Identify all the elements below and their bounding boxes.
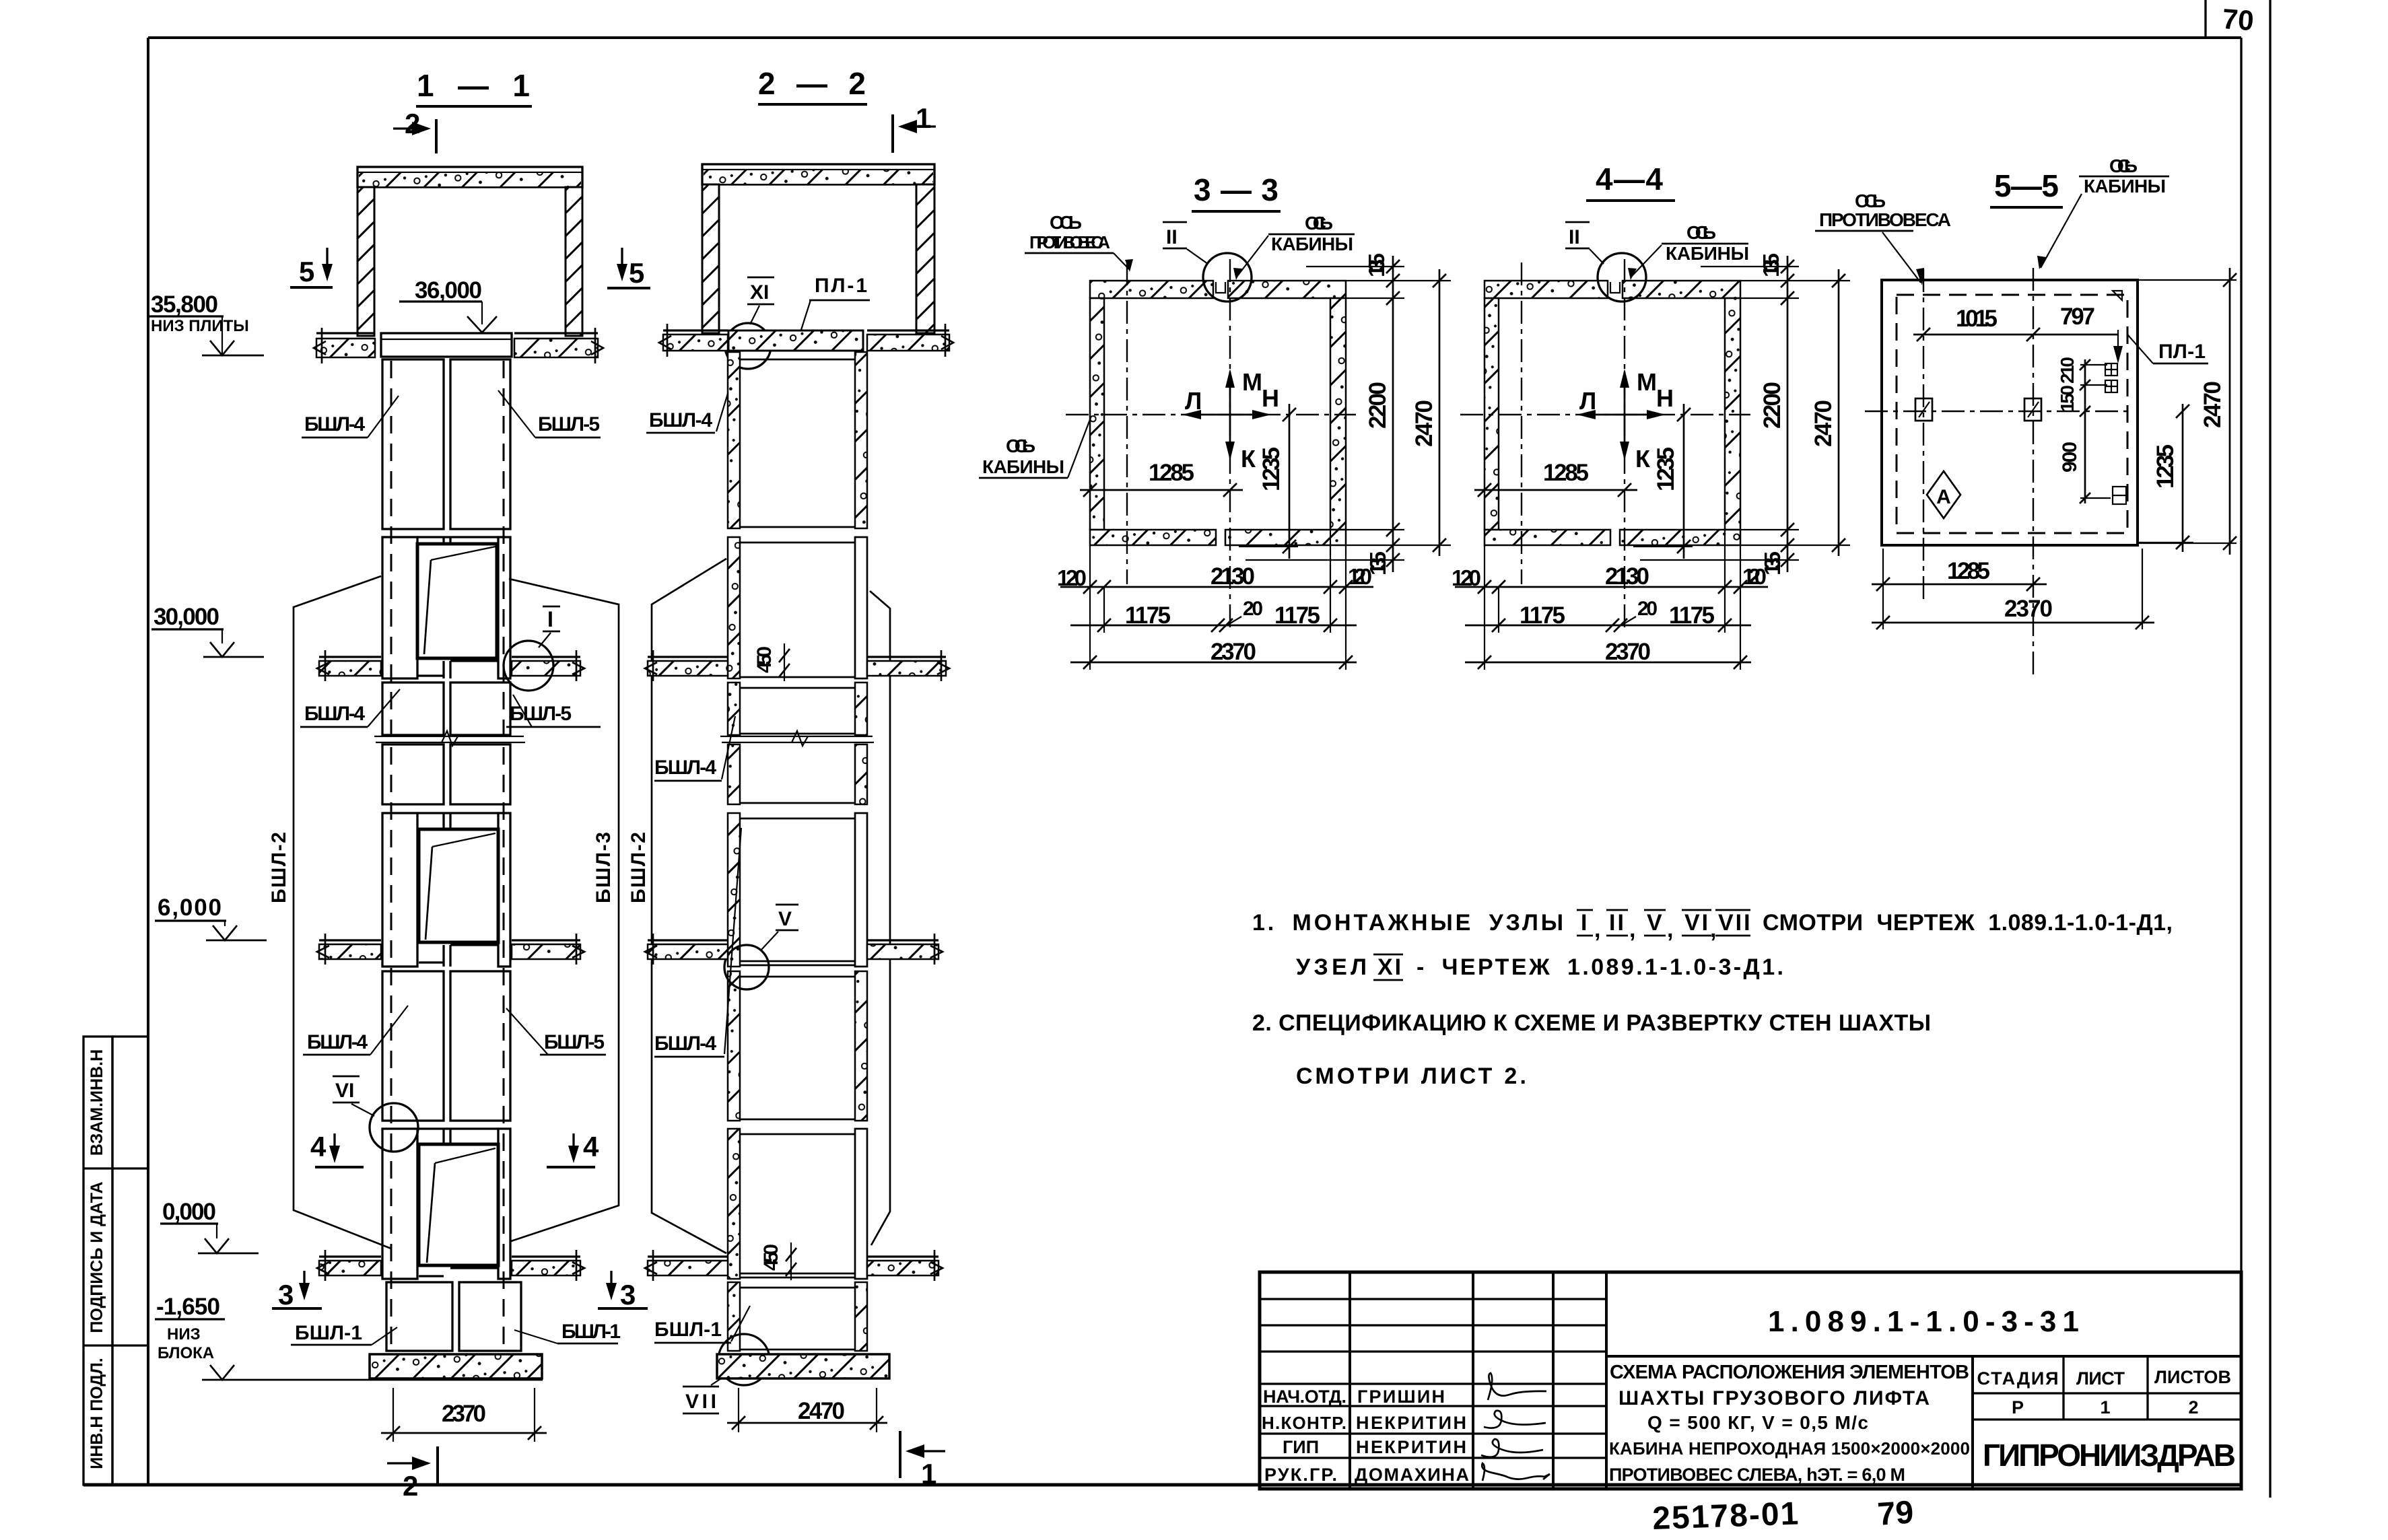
svg-text:ПЛ-1: ПЛ-1	[2158, 341, 2206, 363]
label BShL-1 left	[291, 1322, 397, 1345]
svg-text:I: I	[547, 607, 553, 631]
shaft 1-1 row F blocks	[382, 971, 510, 1121]
svg-text:2470: 2470	[2199, 381, 2226, 428]
axis horizontal 4-4	[1460, 414, 1750, 415]
svg-text:2470: 2470	[1411, 400, 1437, 447]
axis counterweight 4-4	[1521, 262, 1522, 584]
dim 2200 4-4	[1740, 291, 1799, 536]
floor ledge right at 0.000	[512, 1250, 584, 1281]
svg-text:2. СПЕЦИФИКАЦИЮ К СХЕМЕ И: 2. СПЕЦИФИКАЦИЮ К СХЕМЕ И РАЗВЕРТКУ СТЕН…	[1252, 1010, 1931, 1036]
svg-text:I: I	[1581, 910, 1589, 936]
buffer square middle 5-5	[2024, 398, 2041, 421]
svg-text:НИЗ ПЛИТЫ: НИЗ ПЛИТЫ	[151, 317, 249, 335]
section cut marker 2 top	[393, 108, 436, 153]
svg-text:БШЛ-1: БШЛ-1	[295, 1322, 362, 1344]
svg-text:20: 20	[1637, 598, 1658, 620]
svg-text:2370: 2370	[2004, 596, 2053, 622]
svg-text:1175: 1175	[1274, 602, 1320, 629]
notes roman overlines line 1	[1577, 910, 1750, 936]
svg-text:А: А	[1936, 486, 1951, 508]
svg-text:Н: Н	[1656, 384, 1674, 412]
svg-text:К: К	[1241, 445, 1256, 473]
svg-text:КАБИНЫ: КАБИНЫ	[2084, 176, 2166, 197]
svg-text:БШЛ-2: БШЛ-2	[268, 832, 290, 903]
shaft 1-1 door row 2	[382, 813, 510, 967]
signatures	[1481, 1373, 1550, 1481]
svg-text:ОСЬ: ОСЬ	[1855, 190, 1886, 211]
svg-text:V: V	[1647, 910, 1664, 936]
svg-text:2130: 2130	[1605, 563, 1649, 590]
svg-text:2130: 2130	[1210, 563, 1255, 590]
svg-text:6,000: 6,000	[158, 895, 221, 921]
dim 1235 3-3	[1239, 404, 1298, 559]
svg-text:М: М	[1242, 368, 1262, 396]
shaft 1-1 bottom row BShL-1 blocks	[386, 1282, 521, 1351]
svg-text:1. МОНТАЖНЫЕ УЗЛЫ: 1. МОНТАЖНЫЕ УЗЛЫ	[1252, 910, 1565, 936]
dim 450 top 2-2	[753, 643, 790, 681]
plan 5-5 title	[1990, 168, 2063, 207]
svg-text:СМОТРИ ЧЕРТЕЖ 1.089.1-1.0-1-: СМОТРИ ЧЕРТЕЖ 1.089.1-1.0-1-Д1,	[1763, 910, 2175, 936]
svg-text:ПРОТИВОВЕСА: ПРОТИВОВЕСА	[1029, 232, 1110, 252]
label axis cabin 5-5	[2041, 155, 2169, 268]
svg-text:ПОДПИСЬ И ДАТА: ПОДПИСЬ И ДАТА	[88, 1181, 106, 1333]
svg-text:2200: 2200	[1365, 382, 1391, 429]
svg-text:1235: 1235	[2152, 444, 2179, 489]
label BShL-1 2-2	[654, 1306, 750, 1343]
svg-text:797: 797	[2060, 304, 2095, 330]
svg-text:2470: 2470	[798, 1398, 845, 1424]
svg-text:КАБИНА НЕПРОХОДНАЯ 1500×2000×2: КАБИНА НЕПРОХОДНАЯ 1500×2000×2000	[1609, 1438, 1970, 1459]
svg-text:,: ,	[1710, 917, 1718, 942]
svg-text:ЛИСТ: ЛИСТ	[2076, 1368, 2125, 1389]
level 0.000 mark	[160, 1199, 259, 1253]
svg-text:25178-01: 25178-01	[1652, 1496, 1801, 1537]
svg-text:1 — 1: 1 — 1	[417, 68, 530, 103]
svg-text:5 — 5: 5 — 5	[1994, 168, 2059, 203]
svg-text:БШЛ-2: БШЛ-2	[627, 832, 650, 903]
label BShL-1 right	[514, 1321, 621, 1343]
svg-text:5: 5	[299, 256, 314, 287]
svg-text:БШЛ-4: БШЛ-4	[654, 757, 716, 779]
corner anchor top right 5-5	[2113, 291, 2122, 300]
svg-text:Л: Л	[1185, 387, 1202, 415]
notes line 1	[1252, 910, 2175, 942]
direction arrows 3-3	[1182, 368, 1279, 473]
svg-text:1235: 1235	[1258, 447, 1285, 491]
svg-text:ПЛ-1: ПЛ-1	[815, 275, 867, 297]
label BShL-4 mid2	[303, 1006, 408, 1055]
axis cabin 4-4	[1624, 259, 1625, 633]
label PL-1 5-5	[2127, 335, 2208, 363]
dim 1285 3-3	[1080, 460, 1243, 497]
dim 2470 under 2-2	[727, 1388, 887, 1432]
level 30.000 mark	[151, 604, 264, 657]
dim 135 top right 3-3	[1306, 253, 1404, 298]
svg-text:РУК.ГР.: РУК.ГР.	[1264, 1465, 1337, 1485]
section marker 4 right	[547, 1131, 599, 1167]
plan 5-5 outer rect	[1882, 280, 2138, 545]
floor 36.000 ledge right 2-2	[867, 324, 953, 357]
machine room 1-1 top slab	[357, 167, 582, 187]
svg-text:ШАХТЫ ГРУЗОВОГО ЛИФТА: ШАХТЫ ГРУЗОВОГО ЛИФТА	[1618, 1387, 1930, 1409]
machine room 2-2 top slab	[702, 164, 934, 184]
svg-text:ОСЬ: ОСЬ	[1305, 213, 1333, 234]
plan 3-3 walls	[1090, 281, 1346, 545]
label axis cabin top 4-4	[1632, 222, 1749, 276]
dim 2470 5-5	[2138, 268, 2237, 555]
plan 4-4 walls	[1485, 281, 1740, 545]
svg-text:К: К	[1635, 445, 1651, 473]
svg-text:2: 2	[403, 1470, 418, 1502]
svg-text:СХЕМА РАСПОЛОЖЕНИЯ ЭЛЕМЕНТОВ: СХЕМА РАСПОЛОЖЕНИЯ ЭЛЕМЕНТОВ	[1610, 1362, 1969, 1383]
dim 2470 4-4	[1740, 269, 1850, 556]
svg-text:ИНВ.Н ПОДЛ.: ИНВ.Н ПОДЛ.	[88, 1358, 106, 1469]
machine room 1-1 left wall	[357, 187, 374, 336]
svg-text:1: 1	[916, 102, 931, 134]
dim 2370 4-4	[1465, 639, 1751, 669]
section marker 5 right	[607, 248, 650, 289]
dim 1285 4-4	[1474, 460, 1637, 497]
bracket BShL-2 left of 1-1	[268, 576, 391, 1249]
svg-text:БШЛ-4: БШЛ-4	[649, 409, 712, 431]
svg-text:2370: 2370	[442, 1401, 486, 1427]
floor ledge left at 6.000	[317, 934, 381, 965]
section marker 3 right	[598, 1271, 648, 1310]
section cut marker 1 top	[893, 102, 936, 153]
axis horizontal 3-3	[1066, 414, 1356, 415]
svg-text:2470: 2470	[1810, 400, 1837, 447]
left stamp boxes	[83, 1037, 148, 1485]
svg-text:450: 450	[760, 1244, 782, 1271]
svg-text:БШЛ-3: БШЛ-3	[592, 832, 615, 903]
svg-text:НЕКРИТИН: НЕКРИТИН	[1356, 1413, 1466, 1433]
svg-text:1: 1	[921, 1458, 936, 1490]
buffer square left 5-5	[1915, 398, 1932, 421]
svg-text:450: 450	[753, 646, 776, 673]
label BShL-4 top 2-2	[646, 382, 731, 433]
floor 36.000 right ledge	[514, 328, 603, 363]
label axis cabin left 3-3	[979, 416, 1091, 478]
section marker 5 left	[290, 248, 333, 287]
dim 135 bottom right 4-4	[1640, 530, 1799, 575]
section cut marker 2 bottom	[387, 1446, 438, 1502]
svg-text:2370: 2370	[1210, 639, 1256, 665]
shaft 1-1 dashed joint lines	[391, 361, 504, 1349]
node VI circle and label	[333, 1076, 418, 1152]
label BShL-4 low 2-2	[654, 828, 741, 1057]
floor ledge left at 0.000	[317, 1250, 381, 1281]
bracket right of 2-2	[870, 591, 890, 1245]
svg-text:4: 4	[310, 1131, 327, 1162]
svg-text:- ЧЕРТЕЖ 1.089.1-1.0-3-Д1.: - ЧЕРТЕЖ 1.089.1-1.0-3-Д1.	[1417, 954, 1785, 980]
title block row labels	[1262, 1387, 1469, 1485]
svg-text:VI: VI	[335, 1080, 354, 1102]
node II circle 4-4	[1598, 253, 1646, 302]
dim 2370 under 1-1	[381, 1388, 547, 1442]
node I circle	[504, 606, 560, 691]
svg-text:Р: Р	[2012, 1397, 2024, 1417]
dim 2370 5-5	[1872, 549, 2154, 629]
svg-text:1285: 1285	[1543, 460, 1589, 486]
node XI circle	[725, 323, 771, 369]
svg-text:36,000: 36,000	[415, 277, 482, 304]
svg-text:БЛОКА: БЛОКА	[158, 1344, 214, 1362]
dim 135 top right 4-4	[1701, 253, 1799, 298]
label BShL-5 mid1	[506, 695, 601, 727]
section marker 4 left	[310, 1131, 364, 1167]
svg-text:1015: 1015	[1956, 306, 1998, 332]
machine room 2-2 left wall	[702, 184, 719, 333]
label BShL-4 mid1	[300, 689, 400, 727]
anchors right 5-5	[2105, 363, 2126, 504]
svg-text:2 — 2: 2 — 2	[758, 66, 866, 101]
label BShL-5 top 1-1	[498, 390, 601, 438]
svg-text:135: 135	[1364, 253, 1389, 277]
svg-text:СТАДИЯ: СТАДИЯ	[1977, 1368, 2059, 1389]
label axis counterweight 5-5	[1815, 190, 1951, 285]
svg-text:КАБИНЫ: КАБИНЫ	[982, 456, 1064, 477]
svg-text:V: V	[778, 908, 792, 930]
level 35.800 mark	[149, 291, 264, 355]
svg-text:150: 150	[2057, 385, 2078, 412]
svg-text:120: 120	[1057, 565, 1087, 590]
svg-text:XI: XI	[750, 281, 769, 304]
dim 450 bottom 2-2	[760, 1242, 796, 1280]
machine room 2-2 right wall	[916, 184, 934, 333]
svg-text:БШЛ-5: БШЛ-5	[538, 413, 600, 435]
dim 1235 4-4	[1633, 404, 1693, 559]
dim 1015 797 5-5	[1913, 304, 2123, 363]
svg-text:XI: XI	[1377, 954, 1403, 980]
floor plate PL-1 in 1-1	[381, 333, 512, 357]
svg-text:ОСЬ: ОСЬ	[1006, 435, 1035, 456]
svg-text:,: ,	[1629, 917, 1637, 942]
svg-text:ГИПРОНИИЗДРАВ: ГИПРОНИИЗДРАВ	[1983, 1438, 2236, 1473]
section 2-2 title	[758, 66, 867, 104]
svg-text:,: ,	[1594, 917, 1602, 942]
node VII circle and label	[683, 1334, 770, 1413]
svg-text:-1,650: -1,650	[156, 1294, 220, 1320]
bottom dim chain 120 2130 120 3-3	[1057, 530, 1373, 670]
floor ledge right at 30.000 + node I	[512, 650, 584, 681]
svg-text:20: 20	[1243, 598, 1263, 620]
svg-text:120: 120	[1348, 564, 1372, 589]
svg-text:БШЛ-1: БШЛ-1	[654, 1319, 722, 1341]
floor ledge left at 30.000	[317, 650, 381, 681]
notes roman lines line 2	[1373, 954, 1403, 980]
svg-text:3 — 3: 3 — 3	[1194, 172, 1278, 207]
svg-text:ОСЬ: ОСЬ	[1050, 212, 1082, 233]
floor 36.000 left ledge	[314, 328, 375, 363]
svg-text:0,000: 0,000	[162, 1199, 216, 1225]
dim 2370 3-3	[1070, 639, 1357, 669]
svg-text:II: II	[1569, 226, 1580, 248]
svg-text:,: ,	[1667, 917, 1675, 942]
svg-text:2370: 2370	[1605, 639, 1651, 665]
svg-text:БШЛ-4: БШЛ-4	[304, 703, 365, 725]
svg-text:1175: 1175	[1669, 602, 1715, 629]
bottom dim chain 120 2130 120 4-4	[1452, 530, 1768, 670]
label PL-1 in 2-2	[801, 275, 870, 330]
svg-text:3: 3	[278, 1279, 294, 1310]
svg-text:135: 135	[1759, 253, 1783, 277]
svg-text:ДОМАХИНА: ДОМАХИНА	[1355, 1465, 1469, 1485]
svg-text:210: 210	[2057, 357, 2078, 384]
break line 1-1	[374, 731, 525, 746]
machine room 1-1 right wall	[566, 187, 582, 336]
svg-text:35,800: 35,800	[151, 291, 218, 318]
svg-text:5: 5	[629, 257, 644, 289]
svg-text:КАБИНЫ: КАБИНЫ	[1666, 243, 1749, 264]
level 6.000 mark	[155, 895, 267, 940]
dim 135 bottom right 3-3	[1246, 530, 1404, 575]
dim 1285 5-5	[1872, 549, 2047, 629]
axis cabin 5-5 line	[2033, 268, 2034, 680]
bracket BShL-2 left of 2-2	[627, 559, 726, 1253]
plan 4-4 title	[1586, 162, 1675, 201]
svg-text:900: 900	[2059, 442, 2081, 473]
svg-text:1175: 1175	[1520, 602, 1565, 629]
svg-text:БШЛ-1: БШЛ-1	[561, 1321, 621, 1343]
shaft 1-1 row C short blocks	[382, 682, 510, 735]
title block grid	[1260, 1272, 2241, 1489]
section marker 3 left	[272, 1271, 322, 1310]
svg-text:120: 120	[1742, 564, 1767, 589]
dim 1235 5-5	[2138, 404, 2193, 552]
node II label 3-3	[1163, 222, 1208, 264]
svg-text:Q = 500 КГ, V = 0,5 М/с: Q = 500 КГ, V = 0,5 М/с	[1647, 1412, 1868, 1433]
dim 2200 3-3	[1346, 291, 1404, 536]
svg-text:II: II	[1609, 910, 1626, 936]
svg-text:VI: VI	[1684, 910, 1710, 936]
svg-text:ПРОТИВОВЕС СЛЕВА, hЭТ. = 6,0 М: ПРОТИВОВЕС СЛЕВА, hЭТ. = 6,0 М	[1609, 1465, 1905, 1485]
svg-text:4: 4	[583, 1131, 599, 1162]
axis cabin 3-3	[1229, 259, 1231, 633]
svg-text:БШЛ-4: БШЛ-4	[304, 413, 365, 435]
svg-text:30,000: 30,000	[153, 604, 219, 630]
axis counterweight 3-3	[1126, 262, 1128, 584]
floor 36.000 ledge left 2-2	[659, 324, 728, 357]
svg-text:VII: VII	[1718, 910, 1752, 936]
shaft 1-1 door row 3	[382, 1129, 510, 1279]
bracket BShL-3 right of 1-1	[509, 579, 619, 1241]
svg-text:1285: 1285	[1947, 558, 1990, 584]
svg-text:НИЗ: НИЗ	[167, 1325, 201, 1343]
notes line 2	[1296, 954, 1785, 980]
svg-text:Л: Л	[1579, 387, 1596, 415]
foundation slab 1-1	[370, 1354, 542, 1378]
svg-text:БШЛ-4: БШЛ-4	[307, 1031, 368, 1053]
svg-text:ПРОТИВОВЕСА: ПРОТИВОВЕСА	[1819, 209, 1951, 230]
svg-text:УЗЕЛ: УЗЕЛ	[1296, 954, 1369, 980]
label BShL-5 mid2	[506, 1008, 606, 1055]
svg-text:БШЛ-5: БШЛ-5	[544, 1031, 605, 1053]
svg-text:II: II	[1166, 226, 1178, 248]
label axis cabin top 3-3	[1237, 213, 1355, 276]
svg-text:ОСЬ: ОСЬ	[2109, 155, 2138, 176]
svg-text:3: 3	[620, 1279, 636, 1310]
node II label 4-4	[1565, 222, 1604, 264]
label BShL-4 mid 2-2	[654, 716, 735, 781]
dim chain 1175 20 1175 3-3	[1070, 598, 1357, 632]
level 36.000 mark	[399, 277, 497, 332]
title text	[1609, 1362, 1970, 1485]
ledges 6.000 2-2	[645, 934, 943, 965]
ledges 0.000 2-2	[645, 1250, 943, 1281]
svg-text:70: 70	[2221, 3, 2255, 36]
svg-text:ВЗАМ.ИНВ.Н: ВЗАМ.ИНВ.Н	[88, 1049, 106, 1156]
break line 2-2	[720, 731, 874, 746]
plan 5-5 inner dashed pit	[1897, 295, 2127, 533]
svg-text:БШЛ-4: БШЛ-4	[654, 1032, 716, 1055]
shaft 2-2 walls rows	[728, 352, 867, 1351]
svg-text:79: 79	[1876, 1494, 1915, 1533]
svg-text:1285: 1285	[1149, 460, 1194, 486]
stage sheet boxes	[1977, 1367, 2232, 1417]
axis horizontal 5-5	[1865, 411, 2129, 412]
section 1-1 title	[416, 68, 532, 106]
shaft 1-1 row A blocks	[382, 359, 510, 529]
svg-text:ОСЬ: ОСЬ	[1686, 222, 1716, 243]
svg-text:120: 120	[1452, 565, 1481, 590]
level -1.650 mark	[155, 1294, 543, 1380]
node II circle 3-3	[1203, 253, 1252, 302]
shaft 1-1 door row 1	[382, 537, 510, 678]
svg-text:КАБИНЫ: КАБИНЫ	[1271, 234, 1353, 254]
direction arrows 4-4	[1577, 368, 1674, 473]
svg-text:М: М	[1637, 368, 1657, 396]
mark A diamond 5-5	[1927, 471, 1960, 518]
floor ledge right at 6.000	[512, 934, 584, 965]
svg-text:НЕКРИТИН: НЕКРИТИН	[1356, 1437, 1466, 1457]
axis counterweight 5-5 line	[1923, 269, 1924, 599]
dim chain 1175 20 1175 4-4	[1465, 598, 1751, 632]
node XI label	[747, 277, 774, 324]
floor plate PL-1 hatched 2-2	[728, 330, 863, 351]
dim 2470 3-3	[1346, 269, 1451, 556]
svg-text:2: 2	[2188, 1397, 2198, 1417]
label axis counterweight 3-3	[1025, 212, 1129, 269]
svg-text:ГРИШИН: ГРИШИН	[1357, 1387, 1445, 1407]
svg-text:1: 1	[2100, 1397, 2110, 1417]
svg-text:ГИП: ГИП	[1283, 1437, 1319, 1457]
svg-text:2200: 2200	[1759, 382, 1785, 429]
label BShL-4 top 1-1	[302, 396, 399, 438]
node V label and circle	[724, 905, 798, 989]
svg-text:ЛИСТОВ: ЛИСТОВ	[2154, 1367, 2231, 1387]
svg-text:НАЧ.ОТД.: НАЧ.ОТД.	[1263, 1387, 1346, 1407]
svg-text:1235: 1235	[1653, 447, 1679, 491]
svg-text:4 — 4: 4 — 4	[1596, 162, 1663, 197]
section cut marker 1 bottom	[900, 1431, 945, 1490]
plan 3-3 title	[1192, 172, 1281, 211]
svg-text:Н: Н	[1262, 384, 1279, 412]
foundation slab 2-2	[717, 1354, 889, 1378]
svg-text:1175: 1175	[1125, 602, 1171, 629]
dims 210 150 900 5-5	[2057, 357, 2111, 503]
ledges 30.000 2-2	[645, 650, 949, 681]
shaft 1-1 row D blocks	[382, 744, 510, 804]
